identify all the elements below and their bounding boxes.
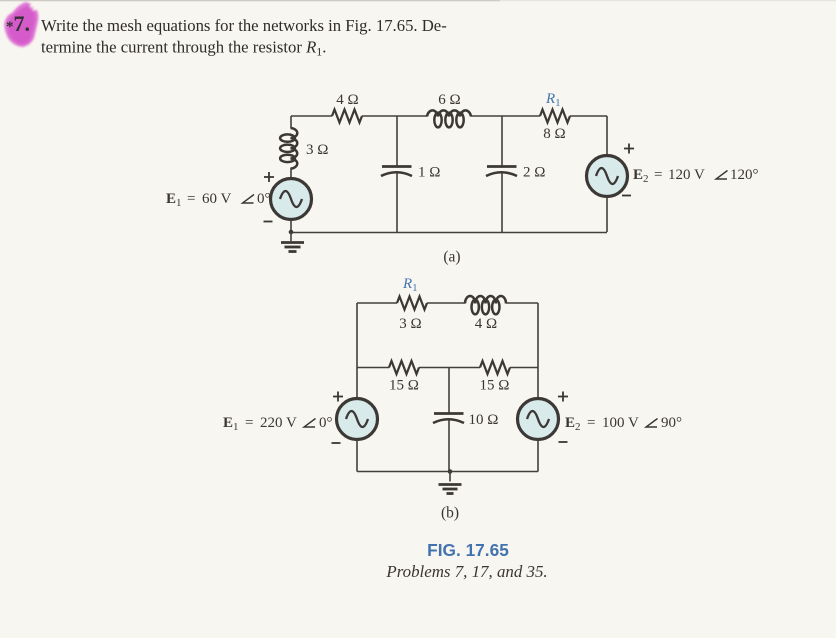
label 6 ohm [438, 92, 460, 108]
label E2 = 120 V angle 120deg [633, 167, 759, 185]
label R1 b [402, 276, 418, 294]
wire bottom horizontal [291, 232, 607, 234]
label 1 ohm [418, 165, 440, 181]
capacitor 10ohm [433, 414, 464, 424]
svg-text:2 Ω: 2 Ω [523, 165, 545, 181]
label (b) [441, 505, 459, 522]
wire mid-right horizontal b [510, 367, 538, 369]
label 15 ohm left [389, 378, 419, 394]
wire below E1 b [356, 440, 358, 472]
wire top between resistor and inductor [362, 115, 427, 117]
resistor R1 b [397, 297, 427, 310]
svg-text:120°: 120° [730, 167, 759, 183]
wire top middle b [427, 302, 465, 304]
inductor 4ohm b [465, 296, 506, 314]
label 4 ohm [336, 92, 358, 108]
plus sign E1 [264, 172, 274, 182]
minus sign E1 [264, 221, 273, 223]
svg-text:100 V: 100 V [602, 415, 639, 431]
svg-text:termine the current through th: termine the current through the resistor… [41, 38, 326, 59]
resistor 15ohm right [480, 361, 510, 374]
ac source E1 [271, 179, 312, 220]
svg-text:4 Ω: 4 Ω [336, 92, 358, 108]
wire left vertical top [290, 116, 292, 128]
junction node [289, 230, 294, 235]
svg-text:0°: 0° [257, 191, 271, 207]
wire top-left horizontal b [357, 302, 397, 304]
wire middle branch bottom b [448, 420, 450, 472]
label 10 ohm [469, 412, 499, 428]
problem statement line 1 [41, 16, 447, 35]
label 4 ohm b [475, 316, 497, 332]
wire top-left horizontal [291, 115, 332, 117]
ground [281, 232, 304, 252]
svg-text:15 Ω: 15 Ω [389, 378, 419, 394]
plus sign E2 [624, 144, 634, 154]
inductor 6ohm [427, 110, 471, 127]
wire capacitor branch 1 top [396, 116, 398, 166]
ac source E2 b [518, 399, 559, 440]
ground b [439, 472, 462, 494]
label E1 = 60 V angle 0deg [166, 191, 271, 209]
problem statement line 2 [41, 38, 326, 59]
label E1 = 220 V angle 0deg [223, 415, 333, 433]
wire right vertical b [537, 303, 539, 399]
label 8 ohm [543, 126, 565, 142]
wire capacitor branch 2 top [501, 116, 503, 166]
svg-text:3 Ω: 3 Ω [306, 142, 328, 158]
resistor 4ohm [332, 110, 362, 123]
figure caption subtitle [385, 562, 547, 581]
wire mid middle b [419, 367, 480, 369]
highlighter mark [4, 2, 38, 47]
minus sign E2 [622, 195, 631, 197]
svg-text:90°: 90° [661, 415, 682, 431]
wire left vertical b [356, 303, 358, 399]
plus sign E2 b [558, 392, 568, 402]
svg-text:=: = [654, 167, 662, 183]
minus sign E2 b [559, 441, 568, 443]
svg-text:(a): (a) [443, 249, 460, 266]
wire capacitor branch 2 bottom [501, 173, 503, 233]
svg-text:120 V: 120 V [668, 167, 705, 183]
label 15 ohm right [480, 378, 510, 394]
figure caption title [427, 540, 509, 560]
inductor 3ohm [280, 128, 297, 169]
capacitor 2ohm [486, 167, 517, 177]
junction node b [448, 469, 453, 474]
wire below source E1 [290, 220, 292, 233]
svg-text:8 Ω: 8 Ω [543, 126, 565, 142]
svg-text:15 Ω: 15 Ω [480, 378, 510, 394]
wire right vertical bottom [606, 197, 608, 233]
svg-text:(b): (b) [441, 505, 459, 522]
ac source E2 [587, 156, 628, 197]
plus sign E1 b [333, 392, 343, 402]
svg-text:Write the mesh equations for t: Write the mesh equations for the network… [41, 16, 447, 35]
wire between inductor and source E1 [290, 168, 292, 179]
svg-text:3 Ω: 3 Ω [399, 316, 421, 332]
resistor 15ohm left [389, 361, 419, 374]
label R1 [545, 91, 561, 109]
label 2 ohm [523, 165, 545, 181]
label 3 ohm [306, 142, 328, 158]
svg-text:0°: 0° [319, 415, 333, 431]
svg-text:60 V: 60 V [202, 191, 231, 207]
wire top-right horizontal b [506, 302, 538, 304]
svg-text:4 Ω: 4 Ω [475, 316, 497, 332]
resistor R1 [540, 110, 570, 123]
svg-text:=: = [245, 415, 253, 431]
wire bottom horizontal b [357, 471, 538, 473]
wire middle branch top b [448, 368, 450, 414]
svg-text:FIG. 17.65: FIG. 17.65 [427, 540, 509, 560]
wire top-right horizontal [570, 115, 607, 117]
svg-text:220 V: 220 V [260, 415, 297, 431]
wire below E2 b [537, 440, 539, 472]
svg-text:=: = [587, 415, 595, 431]
wire right vertical top [606, 116, 608, 156]
capacitor 1ohm [381, 167, 412, 177]
svg-text:10 Ω: 10 Ω [469, 412, 499, 428]
ac source E1 b [337, 399, 378, 440]
svg-text:Problems 7, 17, and 35.: Problems 7, 17, and 35. [385, 562, 547, 581]
svg-text:1 Ω: 1 Ω [418, 165, 440, 181]
svg-text:=: = [187, 191, 195, 207]
label 3 ohm b [399, 316, 421, 332]
label (a) [443, 249, 460, 266]
label E2 = 100 V angle 90deg [565, 415, 682, 433]
wire capacitor branch 1 bottom [396, 173, 398, 233]
minus sign E1 b [332, 442, 341, 444]
svg-text:6 Ω: 6 Ω [438, 92, 460, 108]
wire mid-left horizontal b [357, 367, 389, 369]
problem number *7. [6, 11, 30, 36]
wire top between inductor and R1 [471, 115, 540, 117]
